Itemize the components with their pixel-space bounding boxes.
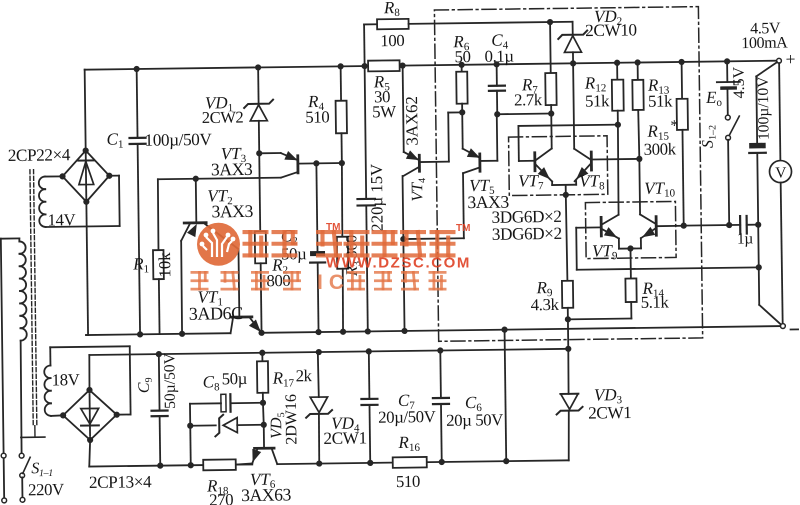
terminal mains bottom contact [20,497,25,502]
wire 18V winding bottom to bridge left [51,414,63,417]
wire bridge1 plus to rail A [85,70,86,151]
resistor R7 2.7k [545,22,557,114]
bridge rectifier D5-D8 2CP13x4 diamond [63,390,117,441]
svg-text:2CW1: 2CW1 [588,403,632,423]
svg-text:2CP22×4: 2CP22×4 [8,145,71,165]
capacitor C1 100u/50V [129,69,148,335]
svg-text:2DW16: 2DW16 [283,394,301,445]
node bridge1 vertex dots [59,147,113,205]
transistor VT8 [573,62,643,181]
resistor R17 2k [257,353,269,406]
svg-text:510: 510 [305,107,329,126]
node rail A junction dots [134,58,731,72]
svg-text:300k: 300k [644,139,677,158]
dash-dot box VT9 VT10 pair [585,201,676,258]
transistor VT1 3AD6C [230,317,261,333]
battery Eo 4.5V [717,61,741,115]
svg-text:100µ/50V: 100µ/50V [144,130,212,150]
svg-text:V: V [775,164,787,181]
svg-text:20µ 50V: 20µ 50V [446,410,503,430]
zener diode VD1 2CW2 [244,67,274,153]
node rail B junction dots [137,327,508,338]
switch S1-1 [19,453,30,497]
resistor R16 510 [393,457,427,468]
capacitor C10 100u/10V output [748,62,781,325]
wire bridge2 plus to W2 [88,355,91,390]
resistor R15 300k [676,62,689,226]
transistor VT3 3AX3 [256,149,345,173]
node W3 junction dots [157,458,509,469]
wire rail B to bottom wire [505,330,507,461]
wire C4 R7 VT7 collector node [494,110,554,117]
svg-text:2k: 2k [295,366,312,385]
svg-text:2CW1: 2CW1 [323,428,367,448]
watermark title characters weiku dianzi shichang wang [243,230,456,258]
svg-text:50µ: 50µ [222,369,248,388]
wire mains left leg [1,238,23,498]
resistor R12 51k [612,63,625,215]
wire rail B lower bus [86,326,781,335]
zener diode VD4 2CW1 [305,352,332,464]
svg-text:4.5V: 4.5V [731,66,748,98]
capacitor C9 50u/50V [151,354,168,466]
transistor VT2 3AX3 [180,178,239,334]
capacitor C7 20u/50V [361,351,378,463]
wire VT7 base link [518,125,618,161]
svg-text:100µ/10V: 100µ/10V [755,76,773,141]
transformer 14V secondary winding [39,177,46,227]
svg-text:3AX3: 3AX3 [211,159,253,180]
svg-text:100: 100 [380,31,404,50]
svg-text:20µ/50V: 20µ/50V [378,407,436,427]
svg-text:10k: 10k [155,252,174,278]
svg-text:51k: 51k [648,91,673,110]
resistor R3 360 [336,163,349,332]
watermark logo circle [197,223,240,266]
bridge rectifier D1-D4 2CP22x4 diamond [62,150,109,202]
capacitor C6 20u 50V [432,350,449,462]
transistor VT4 3AX62 [401,65,464,239]
voltmeter V [768,63,793,324]
svg-text:50: 50 [454,47,470,66]
svg-text:1µ: 1µ [737,230,754,247]
wire W3 bottom wire [89,460,568,466]
svg-text:2CW10: 2CW10 [585,20,637,40]
wire VT9 base to output sense [577,264,762,273]
wire VT7 VT8 common emitter [552,181,576,198]
svg-text:2CW2: 2CW2 [202,108,244,128]
svg-text:220µ 15V: 220µ 15V [367,164,387,232]
svg-text:0.1µ: 0.1µ [484,47,514,66]
transistor VT9 [576,215,619,270]
svg-text:+: + [785,49,795,69]
svg-text:220V: 220V [28,480,64,499]
svg-text:2CP13×4: 2CP13×4 [89,472,152,492]
capacitor C3 220u 15V [356,66,377,332]
svg-text:WWW.DZSC.COM: WWW.DZSC.COM [326,255,471,272]
capacitor C8 50u [190,394,263,426]
resistor R13 51k [632,62,645,214]
resistor R9 4.3k [561,195,574,349]
transformer T primary winding [19,238,28,453]
svg-text:TM: TM [326,222,340,233]
wire W2 rectified 18V supply wire [89,349,568,355]
label minus sign [791,328,798,330]
svg-text:4.3k: 4.3k [531,295,560,314]
node bridge2 vertex dots [60,387,121,444]
wire bridge1 minus to rail B [84,202,88,335]
capacitor C 1u coupling [680,216,758,235]
wire rail A top positive bus [85,61,777,70]
zener diode VD2 2CW10 [558,22,588,64]
resistor R6 50 [456,65,468,113]
dash-dot boundary box regulator section [434,7,702,342]
wire bridge2 minus to W3 [89,440,91,467]
terminal output minus [780,324,785,329]
svg-text:270: 270 [209,490,233,505]
svg-text:2.7k: 2.7k [514,90,543,109]
svg-text:3AX3: 3AX3 [211,201,253,222]
svg-text:100mA: 100mA [741,34,788,52]
transistor VT5 3AX3 [399,109,499,242]
resistor R1 10k [152,179,164,334]
svg-text:IC: IC [317,271,350,294]
svg-text:3AX63: 3AX63 [241,484,292,505]
capacitor C2 50u [309,163,326,332]
svg-text:TM: TM [456,223,470,234]
resistor R18 270 [203,459,236,470]
svg-text:18V: 18V [52,370,80,389]
zener diode VD5 2DW16 [187,403,267,466]
watermark slogan characters quanqiu zuida IC caigou wangzhan [191,271,447,294]
transistor VT7 [534,114,552,182]
transformer 18V secondary winding [44,347,51,416]
svg-text:5.1k: 5.1k [641,293,670,312]
svg-text:3AD6C: 3AD6C [189,303,244,324]
wire R1 VT2 base VT3 collector [158,172,298,182]
svg-text:50µ/50V: 50µ/50V [161,352,179,409]
resistor R8 100 [364,17,573,66]
svg-text:5W: 5W [372,102,396,121]
svg-text:51k: 51k [585,91,610,110]
node W2 junction dots [156,346,572,358]
svg-text:510: 510 [396,472,420,491]
capacitor C4 0.1u [489,64,506,114]
svg-text:3DG6D×2: 3DG6D×2 [492,224,562,244]
transistor VT10 [640,214,684,249]
transformer core [17,170,44,438]
svg-text:*: * [670,117,678,134]
switch S1-2 [725,115,740,225]
resistor R2 800 [254,153,267,333]
wire VT9 VT10 common emitters [619,245,641,251]
dash-dot box VT7 VT8 pair [509,136,608,196]
resistor R4 510 [335,66,347,163]
wire 18V winding top to bridge right [50,346,130,415]
resistor R5 30 5W [368,60,400,71]
wire 14V winding to bridge [45,176,120,227]
terminal output plus [777,58,782,63]
zener diode VD3 2CW1 [556,349,583,461]
wire VT4 VT5 collectors to rail B [403,239,404,331]
svg-text:3AX62: 3AX62 [402,96,422,146]
transistor VT6 3AX63 [235,425,277,465]
resistor R14 5.1k [567,248,637,319]
terminal mains left contacts [1,453,6,503]
